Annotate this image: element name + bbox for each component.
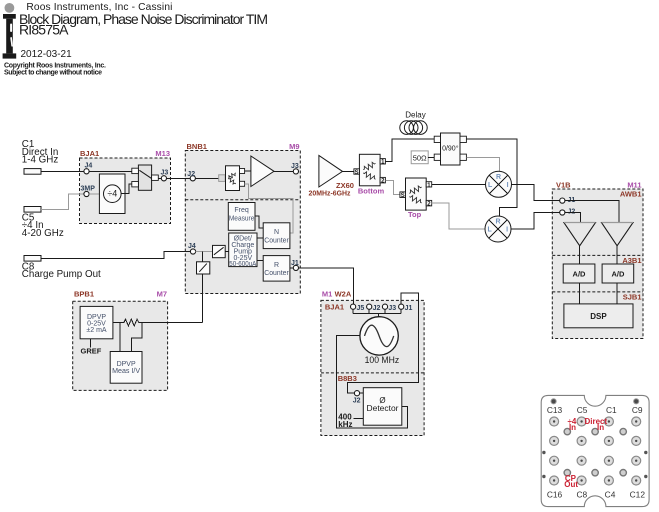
module box BPB1 / M7 [73, 301, 168, 390]
label AWB1 [620, 190, 642, 199]
DSP block [564, 304, 633, 328]
wire switch2 down to DPVP line [202, 274, 204, 323]
svg-text:Subject to change without noti: Subject to change without notice [4, 69, 102, 76]
wire J2 to limiter [195, 177, 225, 179]
pin J2 BNB1 [187, 171, 195, 181]
M1 box divider B8B3 [321, 372, 424, 374]
label BJA1 inside M1 [325, 303, 344, 312]
svg-text:Charge Pump Out: Charge Pump Out [22, 269, 101, 280]
wire 3MP to divider [89, 193, 104, 195]
wire 50ohm to hybrid [428, 156, 434, 158]
switch U1 BJA1 [132, 165, 159, 190]
svg-text:C4: C4 [605, 489, 616, 499]
N Counter block [263, 223, 290, 249]
resistor R1 BPB1 [123, 319, 140, 326]
Roos Instruments logo [3, 14, 17, 59]
wire PD to N counter [257, 237, 263, 239]
pin J4 BJA1 [84, 163, 92, 174]
wire right amp to A/D [616, 246, 618, 264]
splitter Bottom [354, 154, 386, 186]
copyright line 2 [4, 69, 102, 76]
label B8B3 [338, 374, 357, 383]
svg-text:N: N [274, 229, 279, 236]
svg-text:S: S [401, 193, 405, 199]
plate note CP Out [564, 474, 578, 489]
divide-by-4 block [99, 174, 125, 214]
label BJA1 [80, 149, 99, 158]
buffer amp right [602, 223, 634, 246]
svg-text:C16: C16 [547, 489, 563, 499]
svg-text:J2: J2 [353, 398, 361, 405]
wire C8 to BNB1 J4 [41, 252, 190, 259]
svg-text:BNB1: BNB1 [187, 142, 207, 151]
svg-text:kHz: kHz [338, 420, 352, 429]
A/D right [602, 264, 634, 283]
wire Freq Measure to N Counter [255, 216, 263, 228]
svg-text:BPB1: BPB1 [74, 289, 94, 298]
svg-text:J5: J5 [357, 305, 365, 312]
label M7 [157, 289, 167, 298]
mixer2 [485, 216, 511, 242]
pin J3 M1 [382, 304, 396, 312]
wire J4 to switch top port [89, 170, 132, 172]
pin J2 B8B3 [353, 391, 361, 405]
svg-text:÷4: ÷4 [107, 189, 117, 199]
module box BJA1 / M13 [80, 158, 171, 224]
DPVP Meas block [110, 352, 142, 384]
title: Block Diagram, Phase Noise Discriminator TIM [19, 11, 268, 27]
pin J3 BJA1 [161, 169, 169, 181]
svg-text:A/D: A/D [611, 269, 625, 278]
wire switch1 to PD [225, 251, 229, 253]
svg-text:L: L [488, 227, 493, 234]
wire pin bus to oscillator [353, 309, 401, 317]
wire left tap to meas [119, 323, 121, 352]
pin J2 M1 [367, 304, 381, 312]
label Top [408, 210, 422, 219]
label M1 [322, 289, 332, 298]
phase det / charge pump block [229, 233, 257, 268]
label C1 Direct In 1-4 GHz [22, 139, 59, 165]
amplifier ZX60 [319, 156, 343, 188]
V1B divider SJB1 [552, 291, 643, 293]
copyright line 1 [4, 62, 106, 69]
wire R counter to J1 [290, 267, 293, 269]
title: RI8575A [19, 22, 69, 38]
A/D left [563, 264, 595, 283]
svg-text:J3: J3 [388, 305, 396, 312]
svg-text:BJA1: BJA1 [80, 149, 99, 158]
wire C5 to 3MP [41, 194, 84, 209]
wire PD to R counter [257, 260, 263, 262]
svg-text:Delay: Delay [405, 110, 425, 119]
connector C1 [24, 169, 41, 175]
plate hex standoffs [564, 428, 626, 476]
wire J1 BNB1 to J5 M1 [299, 268, 354, 304]
Freq Measure block [228, 203, 255, 231]
wire C1 to J4 [41, 170, 84, 172]
pin J3 BNB1 [291, 163, 299, 174]
buffer amp left [564, 223, 596, 246]
wire left A/D to DSP [579, 283, 581, 304]
svg-text:J2: J2 [187, 171, 195, 178]
plate screw top-right [634, 399, 639, 404]
wire limiter to amp [245, 170, 251, 172]
pin J5 M1 [351, 304, 365, 312]
date 2012-03-21 [21, 49, 73, 60]
wire Bottom port2 to Top S [385, 180, 399, 194]
svg-text:BJA1: BJA1 [325, 303, 344, 312]
svg-text:DSP: DSP [590, 312, 607, 321]
pin J2 V1B [560, 209, 576, 216]
hybrid 0/90 [434, 133, 466, 165]
mixer1 [486, 171, 512, 197]
svg-text:J4: J4 [85, 163, 93, 170]
svg-text:Top: Top [408, 210, 422, 219]
label Bottom [358, 186, 385, 195]
wire switch to J3 [158, 177, 161, 179]
DPVP source block [80, 306, 113, 338]
svg-text:I: I [506, 227, 508, 234]
module box M1 W2A [321, 300, 424, 435]
amplifier BNB1 [251, 156, 274, 187]
svg-text:DPVP: DPVP [117, 361, 136, 368]
plate labels bottom [547, 489, 646, 499]
label A3B1 [622, 256, 641, 265]
label W2A [335, 289, 352, 298]
wire J4 to switch1 [196, 251, 213, 253]
label M11 [627, 181, 641, 190]
limiter diode box [226, 166, 245, 191]
delay coil [400, 121, 427, 135]
svg-text:2012-03-21: 2012-03-21 [21, 49, 73, 60]
svg-text:50Ω: 50Ω [413, 153, 427, 162]
wire J2 to detector [360, 392, 364, 394]
svg-text:R: R [496, 174, 501, 181]
svg-text:Detector: Detector [367, 404, 399, 413]
wire mixer2 I to V1B J2 [511, 213, 560, 230]
svg-text:SJB1: SJB1 [623, 292, 642, 301]
connector C5 [24, 207, 41, 213]
svg-text:4-20 GHz: 4-20 GHz [22, 228, 64, 239]
wire J1 to right amp [565, 201, 619, 222]
svg-text:Meas I/V: Meas I/V [112, 368, 140, 375]
label BPB1 [74, 289, 94, 298]
svg-text:Out: Out [564, 480, 578, 489]
svg-text:Measure: Measure [229, 215, 255, 222]
wire div4 out to switch bottom port [121, 184, 132, 194]
plate screw top-left [551, 399, 556, 404]
label C5 div4 In 4-20 GHz [22, 213, 64, 239]
BNB1 inner divider [185, 199, 300, 201]
svg-text:Counter: Counter [264, 237, 289, 244]
svg-text:50-600uA: 50-600uA [229, 261, 256, 268]
svg-text:AWB1: AWB1 [620, 190, 642, 199]
svg-text:C13: C13 [547, 405, 563, 415]
attenuator pad [219, 175, 226, 182]
svg-text:Copyright Roos Instruments, In: Copyright Roos Instruments, Inc. [4, 62, 106, 69]
switch2 BNB1 [197, 262, 210, 274]
svg-text:J1: J1 [405, 305, 413, 312]
svg-text:V1B: V1B [556, 181, 571, 190]
svg-text:I: I [507, 182, 509, 189]
header line: Roos Instruments, Inc - Cassini [26, 2, 172, 13]
svg-text:S: S [355, 170, 359, 176]
switch1 BNB1 [213, 245, 226, 257]
oscillator 100 MHz [360, 317, 398, 355]
50 ohm termination [411, 151, 428, 164]
plate note div4 In [567, 417, 576, 432]
svg-text:100 MHz: 100 MHz [365, 355, 400, 365]
wire mixer1 I to V1B J1 [512, 184, 560, 200]
svg-text:M1: M1 [322, 289, 332, 298]
wire tap down to switch2 [202, 252, 204, 262]
svg-text:GREF: GREF [81, 346, 102, 355]
svg-text:L: L [488, 182, 493, 189]
wire coupler feedback to N counter [245, 184, 294, 233]
svg-text:M13: M13 [155, 149, 170, 158]
svg-text:A/D: A/D [573, 269, 587, 278]
svg-text:Bottom: Bottom [358, 186, 385, 195]
wire DPVP to resistor [113, 322, 123, 324]
svg-text:1-4 GHz: 1-4 GHz [22, 154, 59, 165]
splitter Top [400, 178, 432, 210]
pin 3MP BJA1 [81, 185, 96, 196]
svg-text:C5: C5 [577, 405, 588, 415]
wire right A/D to DSP [616, 283, 618, 304]
plate side dots [542, 451, 647, 478]
svg-text:In: In [597, 423, 604, 432]
label 100 MHz [365, 355, 400, 365]
svg-text:M11: M11 [627, 181, 641, 190]
wire oscillator loop to detector [336, 335, 407, 428]
label GREF [81, 346, 102, 355]
pin J1 M1 [399, 304, 413, 312]
svg-text:Freq: Freq [234, 207, 249, 214]
label Delay [405, 110, 425, 119]
svg-text:R: R [495, 219, 500, 226]
wire GREF stub [90, 339, 92, 348]
wire J1 loop to B8B3 J2 [348, 293, 419, 393]
R Counter block [263, 256, 290, 282]
wire resistor to switch2 net [140, 322, 203, 324]
svg-text:C12: C12 [630, 489, 646, 499]
label C8 Charge Pump Out [22, 261, 101, 280]
plate note Direct In [584, 417, 607, 432]
svg-text:W2A: W2A [335, 289, 352, 298]
svg-text:Counter: Counter [264, 270, 289, 277]
wire hybrid BR to mixer1 R [466, 157, 499, 171]
svg-text:J2: J2 [373, 305, 381, 312]
svg-text:M9: M9 [289, 142, 299, 151]
svg-text:C1: C1 [606, 405, 617, 415]
module box BNB1 / M9 [185, 151, 300, 294]
wire Top port2 to mixer2 L [432, 203, 485, 229]
wire left amp to A/D [579, 246, 581, 264]
wire Bottom port1 to delay line [385, 139, 434, 161]
label SJB1 [623, 292, 642, 301]
plate pads grid [550, 417, 641, 485]
wire ZX60 to Bottom splitter [343, 170, 354, 172]
label ZX60 20MHz-6GHz [309, 181, 354, 197]
wire right tap to meas [131, 323, 142, 352]
plate labels top [547, 405, 643, 415]
header bullet [4, 3, 14, 13]
svg-text:±2 mA: ±2 mA [86, 327, 107, 334]
wire 400kHz stub [354, 417, 364, 419]
connector C8 [24, 256, 41, 262]
wire J3 to BNB1 J2 [167, 177, 191, 179]
label M9 [289, 142, 299, 151]
svg-text:M7: M7 [157, 289, 167, 298]
wire Top port1 to mixer1 L [432, 183, 486, 185]
svg-text:C9: C9 [632, 405, 643, 415]
svg-text:RI8575A: RI8575A [19, 22, 69, 38]
svg-text:R: R [274, 262, 279, 269]
pin J4 BNB1 [188, 243, 196, 254]
svg-text:C8: C8 [576, 489, 587, 499]
svg-text:J4: J4 [188, 243, 196, 250]
wire J2 to left amp [565, 213, 581, 223]
connector plate outline [541, 395, 649, 506]
label BNB1 [187, 142, 207, 151]
V1B divider A3B1 [552, 254, 643, 256]
pin J1 V1B [560, 197, 576, 204]
svg-text:20MHz-6GHz: 20MHz-6GHz [309, 188, 351, 197]
svg-text:In: In [569, 423, 576, 432]
svg-text:J3: J3 [161, 169, 169, 176]
svg-text:J3: J3 [291, 163, 299, 170]
label M13 [155, 149, 170, 158]
module box V1B / M11 [552, 189, 643, 339]
svg-text:B8B3: B8B3 [338, 374, 357, 383]
wire hybrid TR to mixer2 R [466, 139, 517, 216]
svg-text:3MP: 3MP [81, 185, 96, 192]
phase detector block [363, 388, 402, 426]
pin J1 BNB1 [291, 260, 299, 271]
svg-text:0/90°: 0/90° [442, 145, 459, 153]
label V1B [556, 181, 571, 190]
svg-text:J1: J1 [291, 260, 299, 267]
wire amp to J3 [274, 170, 293, 172]
label 400 kHz [338, 412, 352, 429]
